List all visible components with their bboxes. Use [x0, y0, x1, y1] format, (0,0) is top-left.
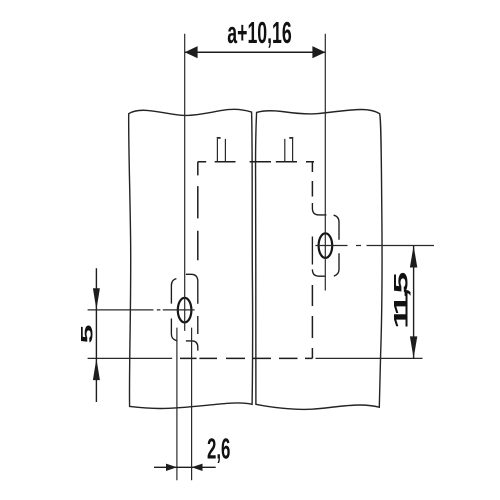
component outline left edge (dashed): [197, 162, 199, 261]
dimension 5 top arrow: [93, 288, 100, 310]
centerline vertical through left hole / top-dim extension: [184, 34, 186, 331]
latch tab left: [217, 139, 225, 161]
svg-text:5: 5: [390, 272, 412, 294]
dimension a+10,16 line: [185, 51, 326, 53]
hole right: [319, 233, 333, 258]
dimension 5 line: [95, 268, 97, 402]
dimension 11,5 bottom arrow: [410, 336, 417, 358]
component outline top edge (dashed): [198, 161, 314, 163]
centerline vertical through right hole / top-dim extension: [324, 34, 326, 291]
component outline bottom edge (dashed): [180, 357, 312, 359]
svg-text:2,6: 2,6: [207, 433, 230, 465]
centerline horizontal right hole / 11.5-dim extension: [315, 245, 434, 247]
flange right (dashed outline): [312, 203, 339, 276]
dimension 2,6 line: [154, 466, 216, 468]
bottom edge extension lines (left for 5-dim, right for 11.5-dim): [88, 357, 423, 359]
panel left piece: [129, 109, 253, 408]
component outline right edge (dashed): [311, 162, 313, 359]
svg-text:5: 5: [77, 325, 96, 344]
hole left: [178, 298, 192, 323]
svg-text:a+10,16: a+10,16: [227, 16, 291, 50]
dimension 11,5 line: [413, 246, 415, 359]
flange left (dashed outline): [171, 274, 197, 350]
dimension a+10,16 left arrow: [185, 46, 198, 58]
dimension a+10,16 right arrow: [312, 46, 325, 58]
latch tab right: [285, 139, 293, 161]
extension lines for 2.6-dim: [177, 328, 192, 481]
dimension 5 bottom arrow: [93, 358, 100, 380]
dimension 2,6 right arrow: [192, 464, 203, 471]
panel right piece: [256, 110, 383, 410]
dimension 11,5 top arrow: [410, 246, 417, 268]
centerline horizontal left hole / 5-dim extension: [88, 309, 195, 311]
dimension 2,6 left arrow: [166, 464, 177, 471]
